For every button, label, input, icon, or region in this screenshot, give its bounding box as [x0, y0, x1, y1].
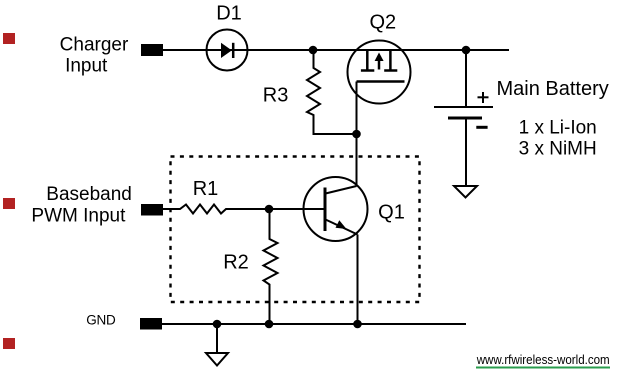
svg-text:PWM Input: PWM Input — [31, 205, 126, 226]
svg-text:Baseband: Baseband — [46, 184, 132, 205]
svg-text:Q1: Q1 — [378, 202, 405, 224]
svg-text:Input: Input — [65, 56, 108, 77]
svg-text:Q2: Q2 — [369, 11, 396, 33]
svg-text:Main Battery: Main Battery — [497, 78, 609, 100]
svg-text:R3: R3 — [263, 85, 289, 107]
svg-text:R1: R1 — [193, 178, 219, 200]
svg-text:D1: D1 — [216, 3, 242, 25]
svg-text:R2: R2 — [223, 252, 249, 274]
svg-text:www.rfwireless-world.com: www.rfwireless-world.com — [476, 352, 610, 367]
svg-text:3 x NiMH: 3 x NiMH — [519, 138, 597, 159]
svg-text:Charger: Charger — [60, 34, 129, 55]
svg-text:1 x Li-Ion: 1 x Li-Ion — [519, 118, 597, 139]
svg-text:GND: GND — [86, 313, 116, 328]
